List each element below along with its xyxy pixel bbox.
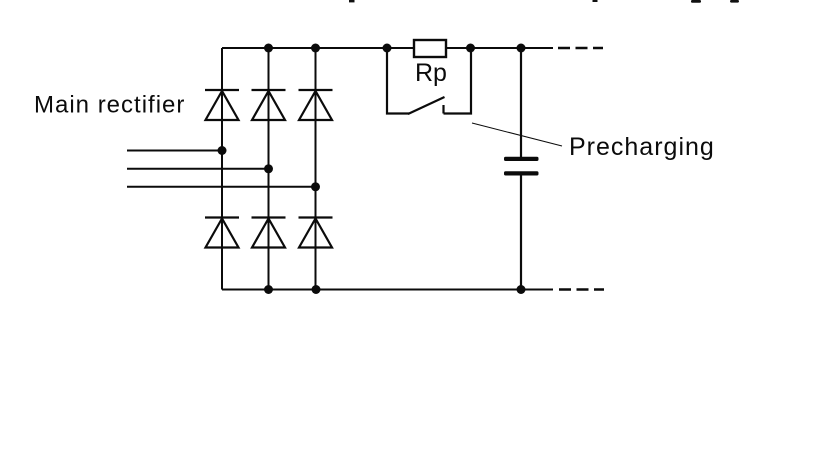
- junction dot: top bus / leg 2: [264, 44, 273, 53]
- svg-text:Rp: Rp: [415, 59, 447, 87]
- junction dot: bottom bus / leg 3: [312, 285, 321, 294]
- switch S1 (precharge bypass) left lead: [387, 48, 409, 114]
- wire: rectifier leg 1 (vertical): [221, 48, 223, 290]
- wire: rectifier leg 3 (vertical): [315, 48, 317, 290]
- diode D2 (top row, leg 2): [252, 90, 286, 120]
- capacitor C1 top lead: [520, 48, 522, 157]
- diode D6 (bottom row, leg 3): [299, 218, 333, 248]
- cropped text fragment 3 (top edge): [691, 0, 701, 3]
- junction dot: phase 2 / leg 2: [264, 164, 273, 173]
- svg-text:Main rectifier: Main rectifier: [34, 92, 185, 119]
- junction dot: top bus / leg 3: [311, 44, 320, 53]
- diode D3 (top row, leg 3): [299, 90, 333, 120]
- wire: bottom bus dashed continuation: [559, 288, 604, 290]
- junction dot: bottom bus / capacitor: [517, 285, 526, 294]
- junction dot: phase 1 / leg 1: [218, 146, 227, 155]
- junction dot: top bus / switch left: [383, 44, 392, 53]
- cropped text fragment 1 (top edge): [349, 0, 355, 2]
- diode D5 (bottom row, leg 2): [252, 218, 286, 248]
- wire: AC phase line 1: [127, 150, 222, 152]
- leader line to Precharging label: [472, 123, 562, 146]
- wire: bottom DC bus: [222, 289, 553, 291]
- resistor Rp (box): [414, 40, 446, 57]
- wire: top DC bus: [222, 47, 553, 49]
- wire: AC phase line 2: [127, 168, 269, 170]
- junction dot: bottom bus / leg 2: [264, 285, 273, 294]
- capacitor C1 bottom lead: [520, 176, 522, 290]
- junction dot: phase 3 / leg 3: [311, 182, 320, 191]
- wire: rectifier leg 2 (vertical): [268, 48, 270, 290]
- svg-text:Precharging: Precharging: [569, 133, 715, 161]
- junction dot: top bus / capacitor: [517, 44, 526, 53]
- capacitor C1 top plate: [504, 157, 539, 161]
- switch S1 blade: [408, 97, 445, 114]
- wire: AC phase line 3: [127, 186, 316, 188]
- wire: top bus dashed continuation: [558, 47, 603, 49]
- cropped text fragment 4 (top edge): [730, 0, 739, 3]
- switch S1 right contact: [442, 105, 444, 114]
- switch S1 right lead: [444, 48, 472, 114]
- capacitor C1 bottom plate: [504, 171, 539, 175]
- diode D1 (top row, leg 1): [205, 90, 239, 120]
- diode D4 (bottom row, leg 1): [205, 218, 239, 248]
- cropped text fragment 2 (top edge): [593, 0, 598, 2]
- junction dot: top bus / switch right: [466, 44, 475, 53]
